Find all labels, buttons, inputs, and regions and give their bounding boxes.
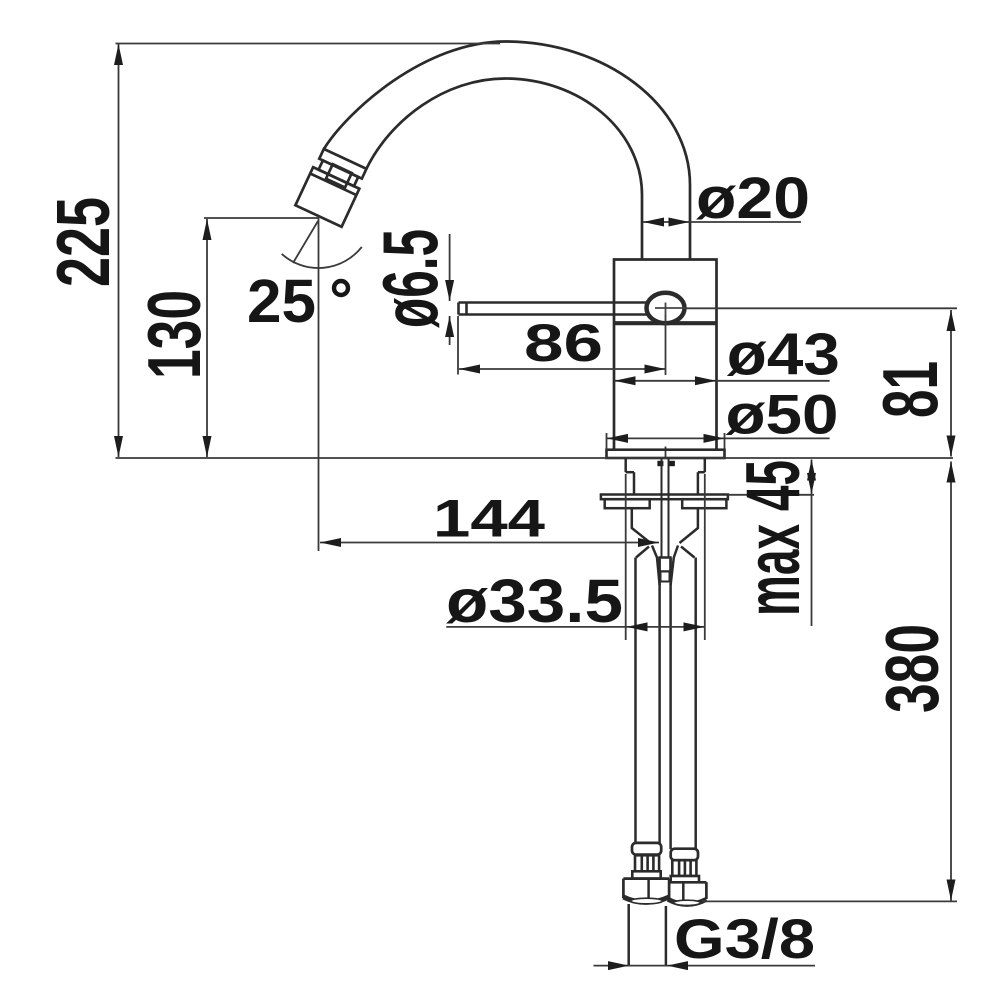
- right hose: [671, 558, 696, 850]
- spout inner wall: [366, 79, 642, 261]
- arrow 144 left: [320, 538, 341, 547]
- dim 20 line: [643, 221, 801, 223]
- arrow G38 right: [667, 961, 688, 970]
- arrow 225 bottom: [114, 436, 123, 457]
- dim 130 extension: [204, 217, 319, 219]
- dim 144 line: [320, 542, 659, 544]
- left hose ribs: [635, 855, 659, 871]
- dim 33.5 extension left: [625, 474, 627, 640]
- nozzle joint band: [319, 149, 366, 179]
- svg-text:81: 81: [866, 361, 954, 418]
- spout outer wall: [324, 42, 690, 261]
- threaded shank: [626, 458, 705, 495]
- dim 50 line: [607, 437, 830, 439]
- svg-text:ø50: ø50: [726, 383, 839, 446]
- faucet centerline: [665, 316, 667, 376]
- dim 6.5 line upper: [449, 234, 451, 301]
- dim max45 extension: [728, 494, 814, 496]
- aerator seam line: [310, 174, 356, 196]
- svg-text:ø33.5: ø33.5: [446, 567, 623, 635]
- arrow 86 left: [459, 365, 480, 374]
- hose inner flare right: [671, 546, 678, 586]
- dim 50 extension right: [724, 433, 726, 450]
- arrow 130 top: [203, 219, 212, 240]
- left hose collar: [632, 843, 661, 855]
- dim 86 line: [459, 368, 666, 370]
- arrow 380 bottom: [947, 880, 956, 901]
- right hose flare band: [671, 876, 699, 882]
- svg-text:225: 225: [41, 197, 125, 287]
- arrow 50 left: [607, 434, 628, 443]
- svg-text:144: 144: [433, 490, 546, 549]
- mounting washer: [601, 495, 728, 500]
- hose inner flare left: [652, 546, 660, 586]
- arrow 43 left: [615, 376, 636, 385]
- aerator tip block: [295, 167, 359, 227]
- right hose collar: [671, 849, 698, 861]
- left hose flare band: [632, 871, 660, 878]
- nozzle aerator group (rotated 25deg): [295, 148, 368, 227]
- dim 81 extension: [683, 307, 957, 309]
- ball cross mark: [655, 307, 686, 309]
- right hex nut: [668, 882, 706, 905]
- dim 43 line: [614, 380, 830, 382]
- mounting nut left profile: [632, 508, 651, 557]
- dim 33.5 line: [446, 626, 705, 628]
- dim 50 extension left: [606, 433, 608, 450]
- arrow max45 up: [807, 460, 816, 481]
- threaded stud: [662, 458, 669, 558]
- svg-text:380: 380: [870, 624, 954, 713]
- svg-text:130: 130: [132, 290, 216, 379]
- body seam thick line: [614, 321, 717, 325]
- svg-text:ø43: ø43: [727, 321, 840, 387]
- nozzle clip: [326, 164, 352, 187]
- right hose ribs: [672, 860, 696, 876]
- arrow 81 bottom: [947, 436, 956, 457]
- arrow 20 left: [643, 218, 664, 227]
- dim G38 line: [594, 965, 816, 967]
- seal marks: [657, 461, 663, 466]
- svg-text:25: 25: [247, 267, 316, 335]
- angle arc 25: [282, 247, 362, 268]
- arrow 6.5 down: [445, 280, 454, 301]
- dim 6.5 line lower: [449, 316, 451, 345]
- dim 380 bottom extension: [702, 900, 957, 902]
- left hose: [636, 558, 660, 844]
- nozzle tip centerline: [318, 216, 320, 551]
- svg-text:ø6.5: ø6.5: [366, 229, 454, 328]
- svg-text:86: 86: [524, 314, 603, 373]
- arrow 380 top: [947, 462, 956, 483]
- top extension line: [116, 43, 501, 45]
- svg-text:G3/8: G3/8: [674, 907, 815, 970]
- left hex nut: [623, 879, 669, 904]
- washer pads: [605, 499, 650, 508]
- mounting nut right profile: [680, 508, 698, 557]
- arrow 144 right: [638, 538, 659, 547]
- arrow G38 left: [608, 961, 629, 970]
- arrow 33.5 right: [684, 622, 705, 631]
- arrow 225 top: [114, 44, 123, 65]
- dim 130 line: [206, 219, 208, 457]
- svg-text:ø20: ø20: [696, 166, 810, 231]
- degree symbol: [334, 281, 348, 295]
- arrow 6.5 up: [445, 316, 454, 337]
- arrow 33.5 left: [627, 622, 648, 631]
- dim 225 line: [118, 44, 120, 457]
- svg-text:max 45: max 45: [731, 460, 816, 616]
- arrowheads: [114, 44, 956, 970]
- left outlet stub G3/8: [627, 904, 630, 965]
- nozzle groove ring: [319, 160, 359, 186]
- arrow 43 right: [695, 376, 716, 385]
- dim 81 line: [950, 310, 952, 457]
- arrow 50 right: [704, 434, 725, 443]
- nozzle axis extension: [293, 221, 318, 263]
- arrow 130 bottom: [203, 436, 212, 457]
- lever ball joint: [647, 293, 685, 323]
- stud end block: [660, 558, 671, 572]
- dim 33.5 extension right: [704, 474, 706, 640]
- flange centerline tick: [665, 447, 667, 459]
- arrow 20 right: [669, 218, 690, 227]
- deck line: [116, 457, 954, 459]
- arrow 86 right: [645, 365, 666, 374]
- faucet body: [614, 260, 717, 450]
- dim 380 line: [950, 462, 952, 901]
- arrow max45 down: [807, 473, 816, 494]
- lever bar: [459, 303, 653, 315]
- base flange: [607, 450, 725, 458]
- dim 86 extension: [457, 316, 459, 375]
- arrow 81 top: [947, 310, 956, 331]
- dim max45 line: [811, 460, 813, 627]
